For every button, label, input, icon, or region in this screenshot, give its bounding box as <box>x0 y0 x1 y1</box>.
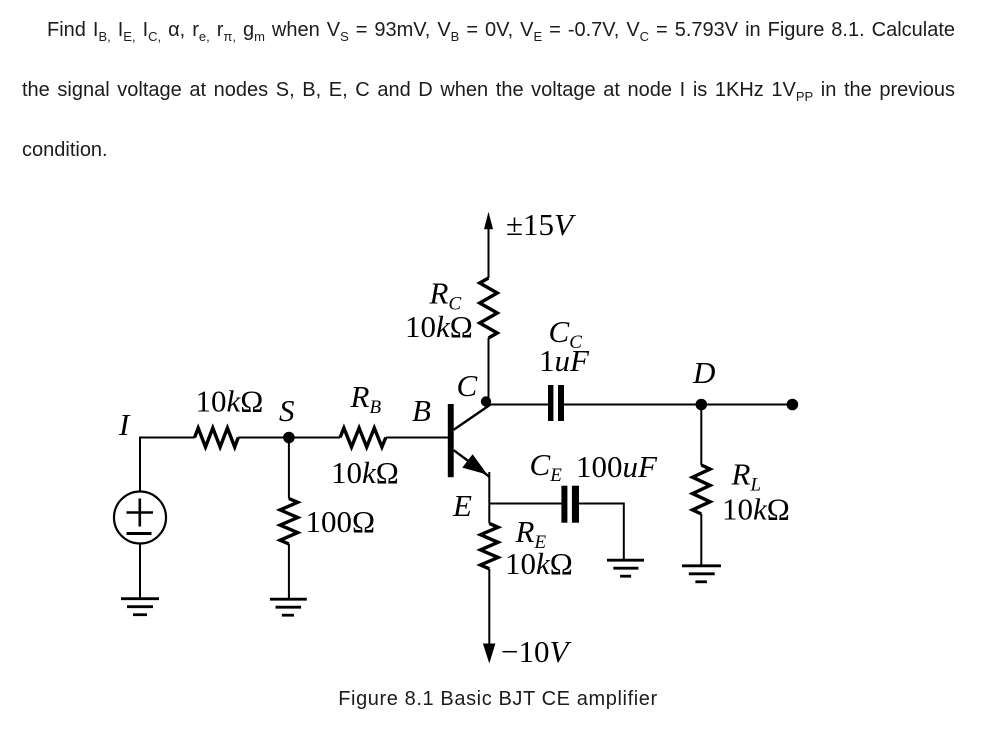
svg-text:RL: RL <box>731 456 762 495</box>
wire from source top to main row corner <box>140 438 195 492</box>
capacitor CE plates <box>561 486 579 523</box>
transistor Q1 emitter lead <box>454 450 490 476</box>
wire capacitor CE to ground corner <box>579 504 624 561</box>
svg-text:RB: RB <box>350 379 382 418</box>
node C junction dot <box>481 396 491 406</box>
transistor Q1 base bar <box>448 404 454 477</box>
svg-text:I: I <box>118 407 131 442</box>
resistor RB 10k ohm (horizontal zigzag) <box>340 428 386 447</box>
voltage source I circle <box>114 492 166 544</box>
transistor Q1 emitter arrowhead <box>462 454 487 474</box>
wire node S to resistor RB <box>289 437 340 439</box>
wire node E to capacitor CE <box>489 503 561 505</box>
ground at source I <box>121 599 159 615</box>
output terminal dot <box>787 399 799 411</box>
svg-text:10kΩ: 10kΩ <box>505 546 573 581</box>
svg-text:D: D <box>692 355 715 390</box>
+15V supply arrowhead <box>484 212 493 230</box>
wire input resistor to node S <box>238 437 289 439</box>
voltage source minus bar <box>127 532 152 535</box>
resistor 10k ohm input (horizontal zigzag) <box>195 428 239 447</box>
svg-text:S: S <box>279 393 295 428</box>
svg-text:10kΩ: 10kΩ <box>722 492 790 527</box>
wire RL to ground <box>700 514 702 566</box>
svg-text:10kΩ: 10kΩ <box>405 309 473 344</box>
wire source bottom to ground <box>139 544 141 599</box>
wire node C to capacitor CC <box>487 404 548 406</box>
svg-text:1uF: 1uF <box>539 343 590 378</box>
svg-text:10kΩ: 10kΩ <box>196 384 264 419</box>
svg-text:B: B <box>412 393 431 428</box>
ground at RL <box>682 566 721 582</box>
svg-text:CE: CE <box>530 447 563 486</box>
svg-text:C: C <box>457 368 478 403</box>
transistor Q1 collector lead <box>454 405 491 430</box>
node S junction dot <box>283 432 295 444</box>
wire RB to transistor base <box>386 437 449 439</box>
svg-text:−10V: −10V <box>501 634 571 669</box>
svg-text:±15V: ±15V <box>506 207 576 242</box>
resistor RC 10k ohm (vertical zigzag) <box>480 278 498 338</box>
-10V supply arrowhead <box>483 644 496 664</box>
wire RC to +15V arrow <box>488 228 490 278</box>
wire collector node C up to RC <box>488 338 490 405</box>
wire 100 ohm resistor to ground <box>288 544 290 599</box>
svg-text:10kΩ: 10kΩ <box>331 455 399 490</box>
svg-text:E: E <box>452 488 472 523</box>
wire RE down to -10V arrow <box>488 569 490 648</box>
resistor RL 10k ohm (vertical zigzag) <box>693 465 711 514</box>
ground at capacitor CE <box>607 560 644 576</box>
svg-text:100uF: 100uF <box>576 449 658 484</box>
voltage source plus sign <box>127 499 154 527</box>
node D junction dot <box>696 399 708 411</box>
resistor RE 10k ohm (vertical zigzag) <box>481 523 499 568</box>
wire capacitor CC through node D to output terminal <box>564 404 792 406</box>
resistor 100 ohm (vertical zigzag) <box>280 499 298 545</box>
wire emitter down through node E to RE <box>488 472 490 523</box>
wire node D down to RL <box>700 405 702 466</box>
capacitor CC plates <box>548 385 564 421</box>
wire node S down to 100 ohm resistor <box>288 438 290 499</box>
ground at 100 ohm <box>270 599 307 615</box>
svg-text:100Ω: 100Ω <box>306 504 376 539</box>
